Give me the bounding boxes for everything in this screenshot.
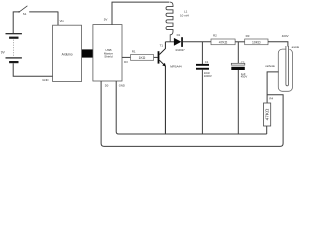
svg-text:R4: R4	[269, 96, 273, 100]
svg-text:47KΩ: 47KΩ	[265, 108, 270, 120]
resistor R3 10KΩ	[245, 39, 268, 45]
svg-text:Arduino: Arduino	[62, 52, 73, 56]
svg-text:1000V: 1000V	[204, 74, 212, 78]
flash tube electrode stem	[286, 46, 289, 86]
svg-text:1KΩ: 1KΩ	[139, 56, 146, 60]
wire R4 to ground rail	[266, 126, 268, 134]
svg-text:GND: GND	[119, 83, 125, 87]
battery dotted cell link	[13, 40, 15, 57]
svg-text:R1: R1	[132, 50, 136, 54]
svg-text:47KΩ: 47KΩ	[219, 40, 228, 44]
svg-text:anode: anode	[292, 45, 300, 49]
connector Arduino-to-shield	[82, 49, 93, 57]
svg-text:MPSA44: MPSA44	[170, 64, 182, 68]
wire R3 to anode, 400V node	[268, 42, 288, 47]
svg-text:10 mH: 10 mH	[180, 13, 189, 17]
wire R1 to base	[154, 56, 158, 58]
svg-text:C2: C2	[241, 60, 245, 64]
capacitor C2 1uF branch wire	[237, 42, 239, 64]
svg-text:1N4937: 1N4937	[175, 48, 185, 52]
flash tube envelope	[278, 49, 292, 91]
svg-text:Vin: Vin	[60, 19, 65, 23]
inductor L1	[166, 2, 173, 42]
wire R2 to R3	[235, 41, 245, 43]
svg-text:T1: T1	[160, 44, 164, 48]
battery B1 9V	[6, 33, 22, 63]
wire collector node to D1	[165, 41, 174, 43]
capacitor C1 10nF branch wire	[201, 42, 203, 64]
svg-text:R3: R3	[246, 34, 250, 38]
Arduino block	[53, 25, 82, 81]
svg-text:C1: C1	[205, 60, 209, 64]
switch S1	[19, 6, 58, 12]
svg-text:D3: D3	[124, 60, 128, 64]
wire battery+ up to switch	[13, 12, 19, 33]
diode D1 1N4937	[174, 38, 181, 46]
wire switch to Arduino Vin	[57, 12, 59, 25]
resistor R2 47KΩ	[211, 39, 235, 45]
svg-text:10KΩ: 10KΩ	[252, 40, 261, 44]
resistor R4 47KΩ	[264, 103, 271, 126]
svg-text:5V: 5V	[104, 18, 108, 22]
svg-text:450V: 450V	[241, 75, 248, 79]
capacitor C2 plates	[231, 63, 245, 65]
svg-text:S1: S1	[23, 12, 27, 16]
resistor R1 1KΩ	[131, 55, 154, 61]
svg-text:Shield: Shield	[104, 55, 113, 59]
wire cathode node to D0 return	[101, 81, 283, 146]
svg-text:GND: GND	[42, 78, 48, 82]
wire D1 to R2	[183, 41, 211, 43]
svg-text:400V: 400V	[282, 34, 289, 38]
svg-text:D1: D1	[177, 33, 181, 37]
wire shield D3 to R1	[122, 56, 131, 58]
wire cathode to R4 node	[267, 72, 279, 103]
transistor T1 MPSA44	[158, 51, 160, 63]
capacitor C1 plates	[196, 64, 209, 66]
USB Master Shield block	[93, 25, 122, 81]
wire battery- to Arduino GND	[13, 63, 52, 76]
stem gap mask	[286, 48, 290, 50]
ground rail from shield GND	[116, 81, 267, 134]
svg-text:R2: R2	[213, 34, 217, 38]
wire shield 5V to top rail	[112, 2, 169, 25]
svg-text:D0: D0	[105, 83, 109, 87]
svg-text:cathode: cathode	[265, 64, 275, 68]
